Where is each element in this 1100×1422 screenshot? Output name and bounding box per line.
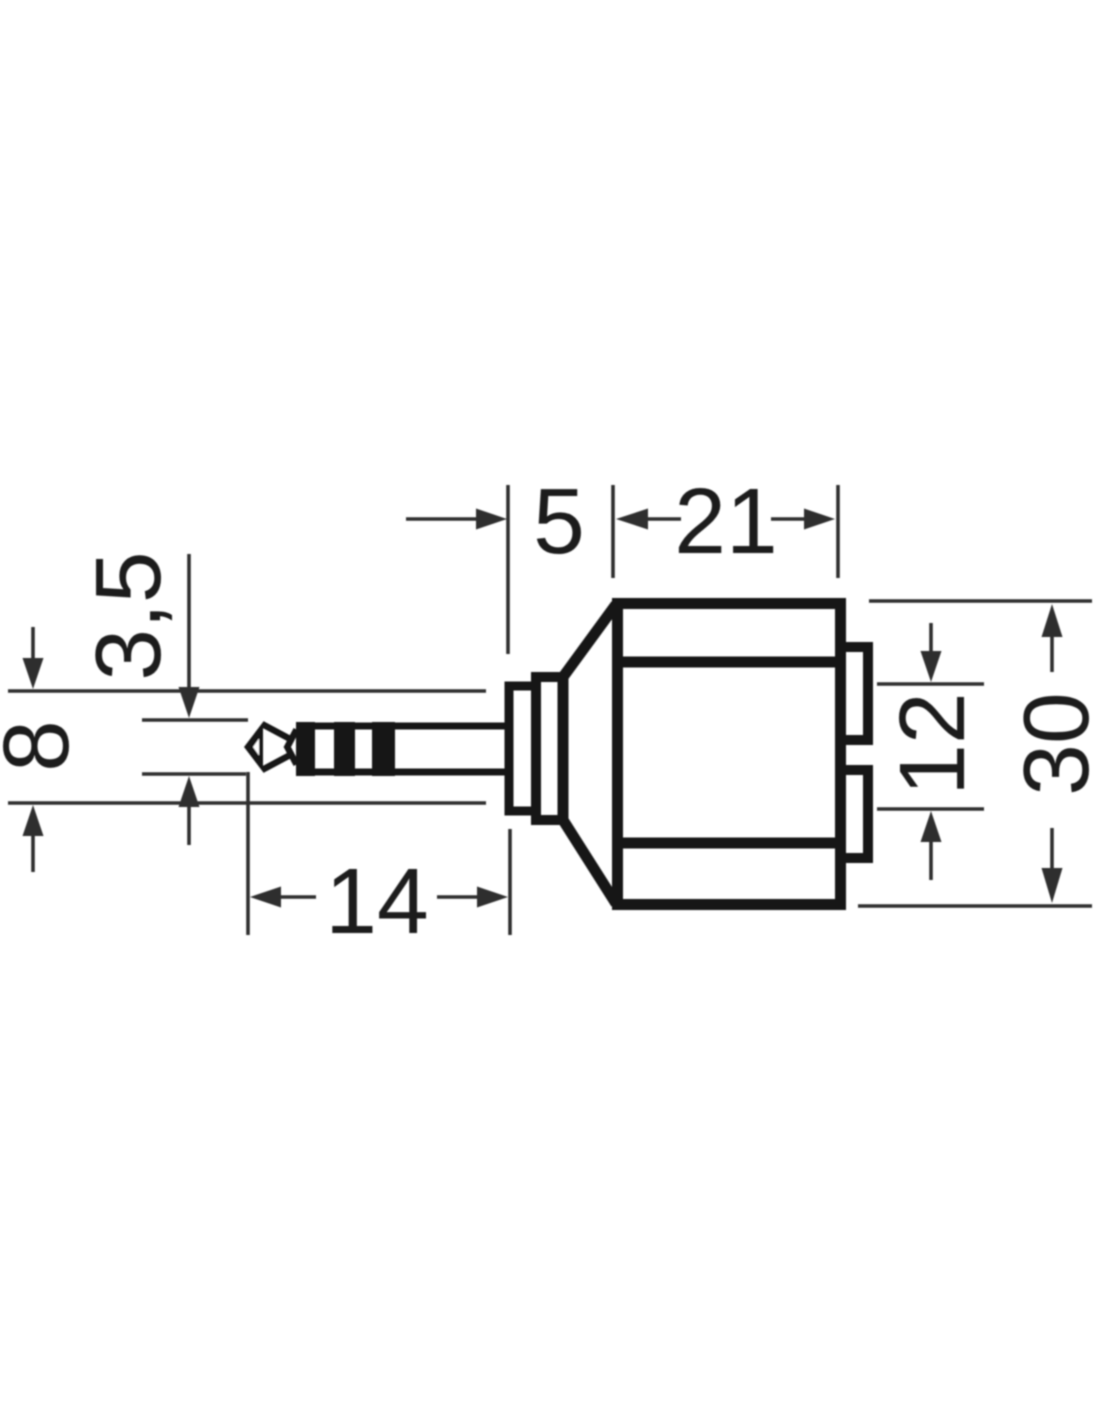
dim 21 right line [771, 517, 805, 521]
upper jack socket [841, 647, 869, 740]
svg-text:30: 30 [1004, 692, 1100, 795]
extension line body left [611, 485, 615, 578]
plug tip [244, 722, 297, 772]
plug contact band C [372, 722, 395, 776]
cone taper [563, 605, 616, 904]
dim 5 arrowhead [476, 509, 507, 530]
extension line body bottom right [858, 904, 1092, 908]
body inner line upper [612, 657, 846, 668]
extension line bushing left [508, 829, 512, 935]
bushing ring [509, 686, 536, 811]
reference line 8 lower [8, 801, 486, 805]
extension line plug tip [246, 772, 250, 935]
lower jack socket [841, 770, 869, 858]
svg-text:5: 5 [533, 469, 585, 573]
body inner line lower [612, 838, 846, 849]
extension line socket lower [877, 807, 984, 811]
plug contact band A [296, 722, 315, 776]
dim 21 left line [646, 517, 681, 521]
dim 8 upper arrow [31, 627, 35, 660]
dim 12 lower arrow [921, 811, 942, 842]
dim 3,5 lower arrow [179, 776, 200, 807]
extension line body right [836, 485, 840, 578]
dim 14 right arrowhead [477, 887, 508, 908]
dim 30 upper arrow [1042, 604, 1063, 637]
dim 14 left arrowhead [250, 887, 281, 908]
collar ring [536, 677, 563, 820]
plug shaft top edge [297, 723, 509, 730]
dim 3,5 upper arrow [187, 554, 191, 689]
svg-text:12: 12 [880, 692, 984, 795]
plug contact band B [334, 722, 355, 776]
extension line body top right [869, 599, 1092, 603]
svg-text:8: 8 [0, 720, 88, 772]
dim 21 left arrowhead [616, 509, 648, 530]
dim 14 right line [437, 895, 479, 899]
reference line 3,5 lower [142, 772, 246, 776]
dim 14 left line [279, 895, 316, 899]
dim 30 lower arrow [1050, 828, 1054, 869]
extension line socket upper [877, 682, 984, 686]
dim 5 leader line [406, 517, 477, 521]
adapter body outline [618, 604, 841, 905]
reference line 8 upper [8, 689, 486, 693]
reference line 3,5 upper [142, 718, 248, 722]
dim 8 lower arrow [23, 805, 44, 836]
svg-text:14: 14 [325, 849, 428, 953]
dim 12 upper arrow [929, 623, 933, 653]
extension line at bushing [506, 485, 510, 654]
svg-text:3,5: 3,5 [76, 551, 180, 680]
svg-text:21: 21 [674, 469, 777, 573]
dim 21 right arrowhead [804, 509, 835, 530]
plug shaft bottom edge [297, 769, 509, 776]
